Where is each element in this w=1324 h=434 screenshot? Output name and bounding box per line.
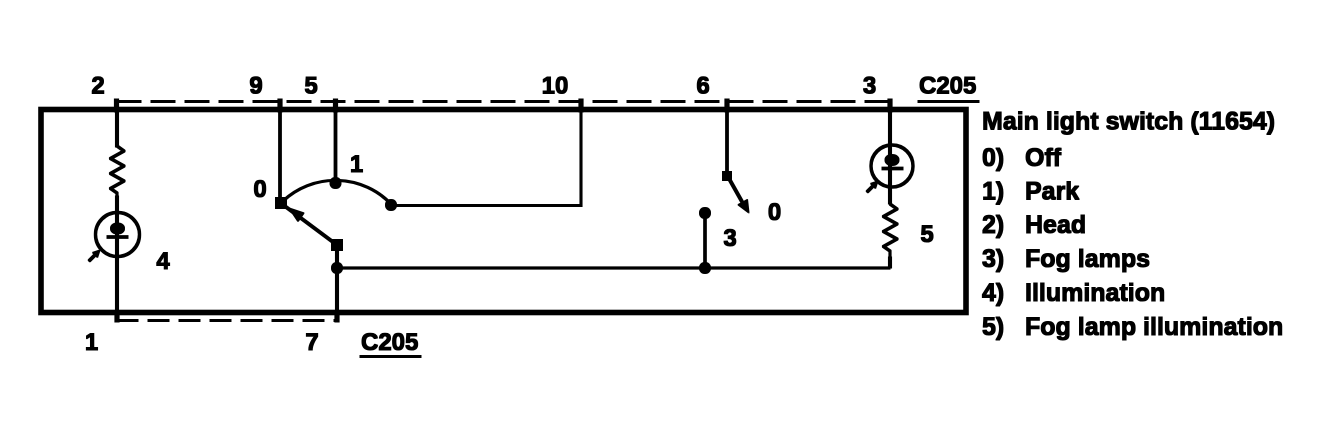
pin 3 tick — [888, 99, 892, 112]
svg-text:5): 5) — [982, 313, 1004, 341]
svg-text:Main light switch (11654): Main light switch (11654) — [982, 108, 1275, 136]
svg-text:C205: C205 — [361, 329, 418, 356]
top connector dashed line — [117, 101, 890, 103]
lamp 5 filament — [885, 155, 899, 166]
switch body box — [41, 110, 966, 313]
svg-text:0: 0 — [768, 199, 781, 226]
pin 10 tick — [579, 99, 583, 112]
resistor R4 — [111, 146, 125, 196]
bus wire to fog lamp — [337, 267, 890, 269]
wire pin 6 to fog switch — [726, 110, 729, 175]
svg-text:0): 0) — [982, 144, 1004, 172]
svg-text:Off: Off — [1025, 144, 1062, 172]
pin 6 tick — [725, 99, 729, 112]
svg-text:1: 1 — [85, 329, 98, 356]
svg-text:C205: C205 — [919, 73, 976, 100]
fog switch blade arrowhead — [738, 200, 749, 214]
wire pin 2 to resistor 4 — [115, 110, 118, 147]
pin 7 tick — [335, 311, 339, 322]
svg-text:3: 3 — [723, 225, 736, 252]
fog switch blade — [727, 175, 745, 207]
contact 1 dot — [330, 178, 341, 189]
fog contact 3 wire — [704, 213, 707, 267]
wire resistor 5 to bus — [888, 257, 891, 268]
rotary wiper arm — [284, 206, 337, 246]
pin 5 tick — [333, 99, 337, 112]
fog contact 3 dot — [700, 208, 711, 219]
wiper pivot dot — [332, 240, 343, 251]
lamp 5 arrow — [867, 184, 875, 192]
svg-text:5: 5 — [920, 221, 933, 248]
wire wiper to pin 7 — [335, 245, 338, 313]
junction dot wiper bus — [332, 263, 343, 274]
fog switch pivot dot — [723, 172, 732, 181]
wire pin 3 to lamp 5 — [888, 110, 891, 204]
svg-text:1): 1) — [982, 178, 1004, 206]
lamp 4 arrow — [89, 253, 97, 261]
wiper arrowhead — [289, 208, 304, 222]
svg-text:5: 5 — [304, 73, 317, 100]
bottom connector dashed line — [117, 320, 337, 322]
svg-text:2): 2) — [982, 211, 1004, 239]
svg-text:2: 2 — [91, 73, 104, 100]
svg-text:0: 0 — [253, 176, 266, 203]
svg-text:Illumination: Illumination — [1025, 279, 1165, 307]
svg-text:6: 6 — [696, 73, 709, 100]
junction dot contact 3 bus — [700, 263, 711, 274]
svg-text:1: 1 — [350, 151, 363, 178]
svg-text:Park: Park — [1025, 178, 1079, 206]
svg-text:10: 10 — [542, 73, 569, 100]
svg-text:Fog lamp illumination: Fog lamp illumination — [1025, 313, 1283, 341]
wire park contact to pin 10 — [391, 110, 581, 206]
wire pin 9 to contact 0 — [279, 110, 282, 201]
park contact dot — [386, 200, 397, 211]
svg-text:Head: Head — [1025, 211, 1086, 239]
svg-text:3): 3) — [982, 245, 1004, 273]
wire pin 5 to contact 1 — [334, 110, 337, 182]
wire resistor 4 to lamp 4 — [115, 196, 118, 313]
lamp 5 bulb circle — [871, 145, 913, 187]
resistor R5 — [884, 204, 898, 257]
rotary contact arc — [283, 180, 391, 204]
pin 2 tick — [114, 99, 118, 112]
lamp 4 bulb circle — [96, 213, 140, 257]
pin 9 tick — [278, 99, 282, 112]
svg-text:3: 3 — [863, 73, 876, 100]
pin 1 tick — [115, 311, 119, 322]
contact 0 dot — [276, 198, 287, 209]
svg-text:4): 4) — [982, 279, 1004, 307]
svg-text:7: 7 — [305, 329, 318, 356]
lamp 4 filament — [111, 223, 125, 234]
svg-text:4: 4 — [156, 248, 170, 275]
svg-text:Fog lamps: Fog lamps — [1025, 245, 1150, 273]
svg-text:9: 9 — [249, 73, 262, 100]
